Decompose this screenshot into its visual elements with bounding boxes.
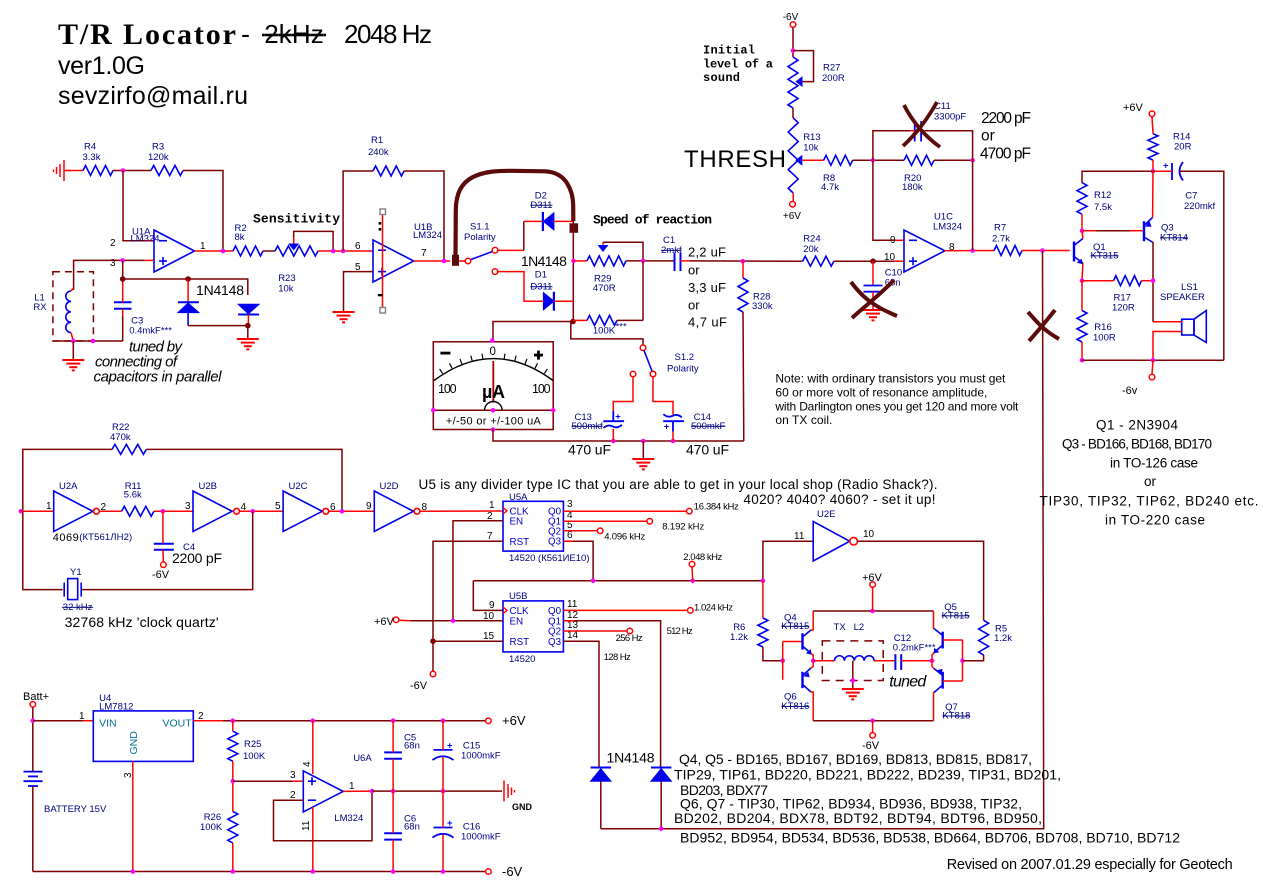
svg-text:Q3 - BD166, BD168, BD170: Q3 - BD166, BD168, BD170 bbox=[1062, 437, 1212, 452]
svg-text:2200 pF: 2200 pF bbox=[172, 550, 222, 566]
wire U6A output bbox=[343, 790, 372, 792]
svg-text:-6v: -6v bbox=[1122, 385, 1138, 397]
svg-text:10k: 10k bbox=[803, 143, 819, 154]
diode D2 pointing left bbox=[543, 212, 554, 231]
svg-text:500mkF: 500mkF bbox=[691, 421, 726, 432]
svg-text:BD952, BD954, BD534, BD536, BD: BD952, BD954, BD534, BD536, BD538, BD664… bbox=[680, 830, 1180, 846]
svg-text:Y1: Y1 bbox=[70, 567, 82, 578]
capacitor C7 electrolytic bbox=[1172, 162, 1183, 181]
inverter U2C bbox=[283, 491, 322, 531]
R27 wiper arrow bbox=[796, 76, 803, 87]
wire C14 bottom stub bbox=[672, 432, 674, 441]
U5B pin names bbox=[510, 606, 562, 648]
junction tank bottom left bbox=[71, 339, 76, 344]
svg-text:Q4, Q5 - BD165, BD167, BD169,: Q4, Q5 - BD165, BD167, BD169, BD813, BD8… bbox=[679, 751, 1032, 767]
switch S1.2 right contact bbox=[650, 371, 656, 377]
junction C3 top maroon bbox=[120, 276, 126, 282]
junction C10 maroon bbox=[870, 258, 876, 264]
svg-text:TIP30, TIP32, TIP62, BD240 et: TIP30, TIP32, TIP62, BD240 etc. bbox=[1040, 494, 1259, 509]
svg-text:KT815: KT815 bbox=[942, 611, 970, 622]
svg-text:2: 2 bbox=[290, 790, 296, 801]
wire R28 bottom to rail bbox=[742, 312, 745, 441]
junction -6V TX bbox=[870, 718, 875, 723]
svg-text:+6V: +6V bbox=[502, 713, 526, 728]
ground under rail bbox=[632, 459, 654, 469]
junction R26 bottom bbox=[231, 869, 236, 874]
svg-text:512 Hz: 512 Hz bbox=[667, 626, 693, 637]
wire -6V to R27 bbox=[792, 28, 794, 57]
svg-text:2200 pF: 2200 pF bbox=[981, 110, 1031, 127]
hand-drawn X on long rail bbox=[1028, 310, 1059, 341]
wire crystal loop bbox=[23, 511, 253, 589]
junction U6A out bbox=[370, 789, 375, 794]
wire U5A Q1 out bbox=[563, 520, 646, 522]
resistor R26 bbox=[228, 811, 238, 843]
svg-text:ver1.0G: ver1.0G bbox=[58, 52, 145, 80]
terminal +6V psu bbox=[486, 718, 492, 724]
svg-text:R7: R7 bbox=[994, 223, 1006, 234]
svg-text:120R: 120R bbox=[1112, 303, 1135, 314]
svg-text:R16: R16 bbox=[1094, 322, 1111, 333]
svg-text:8k: 8k bbox=[235, 232, 245, 243]
wire pin5 to ground bbox=[344, 272, 374, 311]
transistor Q7 PNP mirrored bbox=[934, 669, 943, 693]
capacitor C5 bbox=[384, 752, 402, 758]
wire Batt+ to rail bbox=[32, 707, 34, 771]
wire bottom rail out stage bbox=[1082, 359, 1224, 361]
regulator U4 box bbox=[93, 711, 193, 762]
svg-text:100K: 100K bbox=[243, 751, 266, 762]
wire C1 to R24 bbox=[690, 260, 803, 262]
junction C4 node bbox=[161, 509, 166, 514]
wire D4 leg down bbox=[660, 781, 662, 829]
R23 wiper arrow bbox=[288, 244, 299, 251]
svg-text:470 uF: 470 uF bbox=[686, 442, 729, 458]
wire U2E out to R5 bbox=[857, 541, 983, 620]
switch S1.2 left contact bbox=[630, 371, 636, 377]
resistor R2 bbox=[233, 246, 263, 256]
wire emitter to coil bbox=[813, 660, 834, 662]
svg-text:+: + bbox=[447, 818, 453, 829]
wire Q1 emitter down bbox=[1081, 263, 1084, 281]
junction C15 top bbox=[441, 718, 446, 723]
dashed shield box L1 bbox=[53, 272, 94, 341]
svg-text:with Darlington ones you get 1: with Darlington ones you get 120 and mor… bbox=[774, 399, 1019, 413]
wire corner to D2 anode bbox=[524, 220, 543, 222]
wire tap to terminal bbox=[691, 567, 694, 581]
svg-text:10k: 10k bbox=[278, 284, 294, 295]
svg-text:4020? 4040? 4060? - set it up!: 4020? 4040? 4060? - set it up! bbox=[744, 492, 936, 507]
svg-text:-6V: -6V bbox=[783, 12, 799, 23]
op-amp U1A bbox=[154, 230, 195, 272]
wire Q6 emitter to node bbox=[811, 661, 813, 668]
capacitor C14 electrolytic bbox=[663, 414, 684, 431]
svg-text:Batt+: Batt+ bbox=[23, 691, 49, 703]
wire Q5 collector to +rail bbox=[933, 611, 936, 629]
R29 wiper arrow bbox=[598, 245, 609, 252]
junction R16 bottom bbox=[1080, 358, 1085, 363]
inverter U2B bbox=[193, 491, 232, 531]
power handle square top bbox=[380, 209, 386, 215]
junction R20 right bbox=[970, 158, 975, 163]
wire clamp bottom rail bbox=[188, 325, 248, 327]
wire R6 top stub bbox=[762, 581, 764, 618]
wire Q3 collector down bbox=[1152, 242, 1154, 322]
terminal 16.384 kHz bbox=[687, 508, 693, 514]
wire U1A output to R2 bbox=[195, 250, 234, 252]
svg-text:***: *** bbox=[616, 322, 627, 333]
svg-text:Revised on 2007.01.29 especial: Revised on 2007.01.29 especially for Geo… bbox=[947, 857, 1233, 873]
junction R28 top bbox=[741, 259, 746, 264]
svg-text:1N4148: 1N4148 bbox=[607, 750, 655, 766]
junction rail gnd bbox=[641, 439, 646, 444]
dashed box TX coil bbox=[822, 641, 883, 681]
svg-text:60 or more volt of resonance a: 60 or more volt of resonance amplitude, bbox=[775, 385, 987, 399]
ground left of R4 bbox=[54, 160, 71, 181]
wire C11 loop bbox=[873, 131, 973, 161]
svg-text:S1.2: S1.2 bbox=[675, 352, 695, 363]
svg-text:U5B: U5B bbox=[509, 591, 527, 602]
junction crystal tie bbox=[250, 509, 255, 514]
Q5 emitter arrow bbox=[934, 648, 940, 654]
resistor R22 bbox=[112, 444, 146, 454]
svg-text:Q1 - 2N3904: Q1 - 2N3904 bbox=[1096, 418, 1178, 433]
terminal 1.024 kHz bbox=[688, 608, 694, 614]
wire D2 to right vertical bbox=[554, 220, 574, 222]
meter M1 body bbox=[433, 342, 553, 430]
capacitor C16 electrolytic bbox=[433, 828, 454, 838]
svg-text:256 Hz: 256 Hz bbox=[616, 633, 643, 644]
svg-text:SPEAKER: SPEAKER bbox=[1160, 292, 1205, 303]
wire R14 to junction bbox=[1152, 160, 1154, 171]
svg-text:5: 5 bbox=[275, 501, 281, 512]
svg-text:4.7k: 4.7k bbox=[821, 182, 839, 193]
wire psu bottom rail bbox=[33, 871, 486, 873]
Q6 emitter arrow bbox=[803, 672, 810, 677]
U2D bubble bbox=[414, 508, 420, 514]
svg-text:BATTERY 15V: BATTERY 15V bbox=[44, 804, 107, 815]
junction pin4 bbox=[311, 718, 316, 723]
wire battery minus to bottom rail bbox=[32, 786, 34, 872]
wire U5A Q2 out bbox=[563, 530, 597, 532]
svg-text:0.2mkF***: 0.2mkF*** bbox=[893, 643, 936, 654]
svg-text:-6V: -6V bbox=[410, 680, 428, 692]
svg-text:14520: 14520 bbox=[509, 654, 535, 665]
hand-drawn blob right bbox=[570, 223, 579, 233]
wire R22 feedback loop bbox=[23, 449, 342, 511]
svg-text:KT816: KT816 bbox=[781, 701, 809, 712]
svg-text:7: 7 bbox=[487, 531, 493, 542]
svg-text:RX: RX bbox=[33, 302, 47, 313]
svg-text:100: 100 bbox=[532, 382, 551, 396]
switch S1.1 common contact bbox=[465, 258, 471, 264]
svg-text:Speed of reaction: Speed of reaction bbox=[593, 213, 712, 228]
wire stub to clamp diode left bbox=[187, 279, 189, 302]
junction Q1 emitter node bbox=[1080, 278, 1085, 283]
terminal -6V under C4 bbox=[161, 562, 167, 568]
svg-text:4069: 4069 bbox=[53, 532, 79, 544]
svg-text:11: 11 bbox=[301, 820, 312, 831]
ground right psu bbox=[504, 781, 515, 802]
wire R24 to U1C pin10 bbox=[834, 260, 894, 262]
svg-text:Sensitivity: Sensitivity bbox=[253, 212, 340, 227]
wire VOUT to +6V rail bbox=[193, 720, 223, 722]
inverter U2A bbox=[54, 491, 93, 531]
svg-text:(КТ561ЛН2): (КТ561ЛН2) bbox=[79, 532, 132, 543]
wire R29 to C1 bbox=[626, 260, 674, 262]
svg-text:2mkf: 2mkf bbox=[661, 245, 682, 256]
U5A pin names bbox=[510, 507, 562, 549]
svg-text:9: 9 bbox=[489, 600, 495, 611]
svg-text:20k: 20k bbox=[803, 244, 819, 255]
meter divider line bbox=[433, 409, 553, 411]
svg-text:11: 11 bbox=[794, 531, 805, 542]
svg-text:THRESH: THRESH bbox=[684, 146, 786, 173]
junction C16 bottom bbox=[441, 869, 446, 874]
junction bus R6 U2E bbox=[761, 579, 766, 584]
resistor R4 bbox=[83, 166, 113, 176]
junction C5 bottom bbox=[391, 789, 396, 794]
U5B clk triangle bbox=[503, 607, 507, 614]
potentiometer R23 bbox=[275, 246, 318, 256]
svg-text:3: 3 bbox=[290, 770, 296, 781]
junction C5 top bbox=[391, 718, 396, 723]
svg-text:68n: 68n bbox=[404, 741, 420, 752]
wire R12 to Q3 base node bbox=[1081, 214, 1083, 231]
transistor Q6 PNP bbox=[803, 668, 812, 692]
diode D4 128Hz leg bbox=[651, 768, 671, 782]
terminal 8.192 kHz bbox=[647, 519, 653, 525]
crystal Y1 bbox=[64, 579, 81, 600]
meter plus sign bbox=[534, 351, 543, 360]
svg-text:1N4148: 1N4148 bbox=[521, 253, 567, 269]
wire C7 right to rail bbox=[1180, 171, 1224, 360]
svg-text:68n: 68n bbox=[404, 822, 420, 833]
terminal +6V right bbox=[1149, 111, 1155, 117]
transistor Q1 NPN bbox=[1074, 239, 1083, 264]
meter scale arc bbox=[434, 359, 553, 381]
wire D3 leg down bbox=[600, 781, 602, 829]
wire U1C out bbox=[945, 250, 994, 252]
capacitor C6 bbox=[384, 833, 402, 839]
svg-text:TIP29, TIP61, BD220, BD221, BD: TIP29, TIP61, BD220, BD221, BD222, BD239… bbox=[674, 767, 1061, 783]
resistor R17 bbox=[1114, 276, 1142, 286]
junction bus tap bbox=[690, 579, 695, 584]
meter corner handles bbox=[490, 338, 495, 343]
svg-text:D1: D1 bbox=[535, 270, 547, 281]
svg-text:R25: R25 bbox=[244, 739, 261, 750]
hand-drawn X over C10 ground bbox=[851, 280, 897, 318]
svg-text:EN: EN bbox=[510, 517, 524, 528]
clamp diode right 1N4148 pointing down bbox=[238, 304, 259, 314]
wire speaker top bbox=[1153, 321, 1182, 323]
svg-text:+: + bbox=[664, 421, 670, 432]
junction C15 bottom bbox=[441, 789, 446, 794]
wire red stub to pin2 bbox=[144, 240, 154, 242]
svg-text:VOUT: VOUT bbox=[163, 718, 193, 730]
wire bottom rail TX bbox=[813, 720, 933, 722]
wire red stub pin6 bbox=[362, 250, 373, 252]
meter needle red bbox=[492, 361, 494, 403]
wire Q7 emitter bbox=[932, 661, 934, 669]
svg-text:3: 3 bbox=[185, 501, 191, 512]
op-amp U6A bbox=[303, 771, 343, 812]
wire tank to ground bbox=[72, 341, 74, 359]
diode D1 pointing right bbox=[543, 292, 554, 311]
wire S1.2 left to C13 bbox=[613, 377, 633, 411]
clamp diode left 1N4148 pointing up bbox=[178, 302, 199, 312]
svg-text:9: 9 bbox=[366, 501, 372, 512]
wire R28 top red stub bbox=[742, 261, 744, 278]
wire tank bottom rail bbox=[53, 340, 123, 342]
wire rail to ground bbox=[642, 441, 644, 458]
Q1 emitter arrow bbox=[1077, 259, 1083, 265]
svg-text:R12: R12 bbox=[1094, 190, 1111, 201]
svg-text:1: 1 bbox=[79, 711, 85, 722]
terminal -6V TX bbox=[870, 733, 876, 739]
svg-text:KT814: KT814 bbox=[1160, 233, 1188, 244]
wire Q1 red stub bbox=[563, 620, 575, 622]
svg-text:470R: 470R bbox=[593, 283, 616, 294]
junction RST rail maroon bbox=[430, 638, 436, 644]
svg-text:tuned: tuned bbox=[889, 673, 927, 690]
R13 wiper arrow bbox=[795, 155, 802, 166]
wire U5A Q3 down to bus bbox=[563, 541, 593, 581]
meter scale ticks bbox=[440, 354, 548, 374]
wire ground to R4 bbox=[68, 170, 83, 172]
wire EN rail bbox=[410, 521, 503, 621]
resistor R12 bbox=[1077, 183, 1087, 215]
junction divider node bbox=[231, 779, 236, 784]
terminal +6V under R13 bbox=[790, 202, 796, 208]
svg-text:L2: L2 bbox=[854, 622, 865, 633]
svg-text:T/R Locator: T/R Locator bbox=[58, 18, 236, 51]
Q3 emitter arrow bbox=[1145, 221, 1152, 227]
svg-text:1.2k: 1.2k bbox=[730, 632, 748, 643]
wire U5A Q0 out bbox=[563, 510, 686, 512]
wire speaker bottom bbox=[1153, 332, 1182, 361]
transistor Q3 PNP bbox=[1144, 218, 1153, 243]
svg-text:128 Hz: 128 Hz bbox=[604, 652, 631, 663]
wire C15 stubs bbox=[442, 721, 444, 750]
junction R8 R20 bbox=[871, 158, 876, 163]
svg-text:11: 11 bbox=[567, 599, 578, 610]
wire R20 right to junction bbox=[934, 159, 973, 161]
svg-text:1000mkF: 1000mkF bbox=[461, 832, 501, 843]
op-amp U1B bbox=[373, 240, 414, 282]
junction bottom of diode leg maroon bbox=[570, 319, 576, 325]
svg-text:-: - bbox=[241, 19, 250, 49]
svg-text:2kHz: 2kHz bbox=[262, 19, 326, 49]
IC U5B box bbox=[503, 601, 563, 652]
svg-text:R4: R4 bbox=[84, 142, 96, 153]
U2A bubble bbox=[94, 508, 100, 514]
hand-drawn X over C11 bbox=[903, 102, 940, 147]
wire 100K left stub bbox=[573, 319, 587, 321]
speaker LS1 bbox=[1182, 311, 1207, 343]
svg-text:240k: 240k bbox=[368, 147, 389, 158]
svg-text:1.024 kHz: 1.024 kHz bbox=[694, 602, 733, 613]
svg-text:3: 3 bbox=[567, 499, 573, 510]
svg-text:1: 1 bbox=[349, 781, 355, 792]
wire R1 left leg to pin6 node bbox=[343, 171, 373, 251]
resistor R16 bbox=[1077, 311, 1087, 343]
svg-text:500mkf: 500mkf bbox=[572, 421, 604, 432]
svg-text:+: + bbox=[447, 740, 453, 751]
svg-text:S1.1: S1.1 bbox=[470, 222, 490, 233]
svg-text:4.096 kHz: 4.096 kHz bbox=[604, 531, 645, 542]
svg-text:LM324: LM324 bbox=[933, 222, 962, 233]
svg-text:Polarity: Polarity bbox=[667, 364, 699, 375]
U2C bubble bbox=[323, 508, 329, 514]
wire C4 bottom stub bbox=[162, 550, 165, 562]
capacitor C12 bbox=[895, 654, 901, 670]
svg-text:sevzirfo@mail.ru: sevzirfo@mail.ru bbox=[58, 82, 248, 110]
wire R13 bottom stub bbox=[792, 193, 794, 201]
svg-text:100R: 100R bbox=[1093, 333, 1116, 344]
svg-text:1.2k: 1.2k bbox=[994, 633, 1012, 644]
svg-text:6: 6 bbox=[355, 241, 361, 252]
wire junction down to U1A pin2 bbox=[123, 171, 144, 241]
svg-text:VIN: VIN bbox=[99, 718, 117, 730]
ground under tank bbox=[62, 360, 84, 370]
capacitor C1 bbox=[675, 253, 681, 272]
wire R23 wiper loop bbox=[294, 231, 333, 251]
wire U5B Q1 512Hz down bbox=[563, 621, 660, 768]
wire C6 stubs bbox=[392, 791, 394, 833]
junction Q1 base rail bbox=[1040, 248, 1045, 253]
resistor R14 bbox=[1148, 134, 1158, 160]
svg-text:100K: 100K bbox=[200, 822, 223, 833]
resistor R5 bbox=[979, 620, 989, 655]
wire +6V to R14 bbox=[1152, 117, 1153, 134]
wire R27 wiper loop bbox=[793, 51, 814, 82]
svg-text:U2A: U2A bbox=[59, 481, 78, 492]
wire R1 right leg to U1B output bbox=[404, 171, 444, 261]
wire divider to pin3 bbox=[233, 780, 293, 782]
terminal -6v right bbox=[1149, 374, 1155, 380]
wire clamp right bottom stub bbox=[247, 315, 249, 326]
svg-text:capacitors in parallel: capacitors in parallel bbox=[94, 368, 223, 385]
wire C3 bottom to tank rail bbox=[122, 316, 124, 341]
svg-text:Q3: Q3 bbox=[548, 537, 562, 548]
svg-text:470 uF: 470 uF bbox=[568, 442, 611, 458]
wire U2C to U2D bbox=[329, 510, 375, 512]
power pin dash mark bbox=[378, 294, 383, 296]
svg-text:20R: 20R bbox=[1174, 142, 1192, 153]
svg-text:+: + bbox=[615, 412, 621, 423]
inverter U2D bbox=[374, 491, 413, 531]
wire D1 to right vertical bbox=[554, 300, 573, 302]
svg-text:+6V: +6V bbox=[862, 572, 883, 584]
junction rail C13 bbox=[611, 439, 616, 444]
potentiometer R27 bbox=[788, 57, 798, 108]
wire node to R29 bbox=[574, 260, 588, 262]
hand-drawn blob left bbox=[452, 255, 459, 266]
wire Q4 base stub bbox=[783, 641, 803, 643]
resistor R1 bbox=[373, 166, 404, 176]
wire 100K right stub bbox=[617, 319, 643, 321]
junction rail C14 bbox=[671, 439, 676, 444]
wire U5B Q2 out bbox=[563, 630, 626, 632]
svg-text:0: 0 bbox=[490, 346, 496, 358]
wire R26 bottom bbox=[232, 843, 234, 872]
svg-text:D311: D311 bbox=[530, 200, 552, 211]
switch S1.1 lower contact bbox=[492, 269, 498, 275]
svg-text:C7: C7 bbox=[1185, 191, 1197, 202]
potentiometer R13 bbox=[788, 118, 798, 193]
junction left bases bbox=[780, 658, 785, 663]
